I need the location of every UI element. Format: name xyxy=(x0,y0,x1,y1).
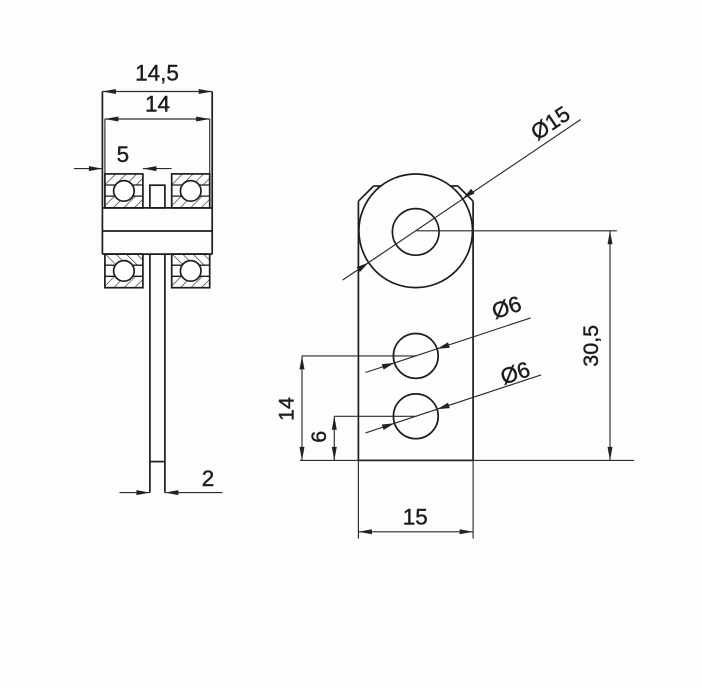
svg-text:6: 6 xyxy=(307,431,331,443)
svg-text:14: 14 xyxy=(275,397,299,421)
svg-text:2: 2 xyxy=(202,466,215,491)
svg-text:15: 15 xyxy=(403,505,428,530)
svg-text:14: 14 xyxy=(145,92,170,117)
svg-text:5: 5 xyxy=(117,142,130,167)
svg-text:30,5: 30,5 xyxy=(579,325,603,367)
svg-text:14,5: 14,5 xyxy=(135,61,179,86)
